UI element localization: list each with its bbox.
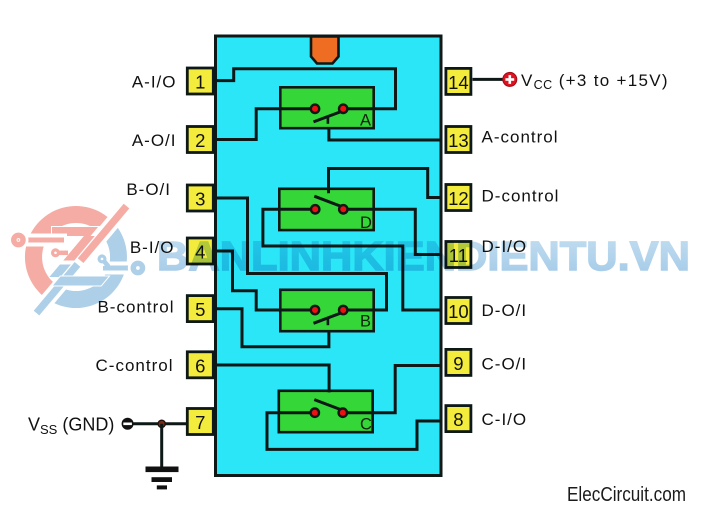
svg-text:D: D	[360, 214, 372, 232]
Vcc plus terminal	[503, 72, 517, 86]
switch A right contact dot	[339, 105, 347, 113]
svg-text:A-I/O: A-I/O	[132, 72, 177, 91]
svg-text:13: 13	[448, 130, 469, 151]
switch D body	[279, 189, 373, 230]
switch B	[311, 306, 371, 331]
wire switch A control to pin13	[329, 129, 441, 140]
logo small node pink stub	[59, 251, 69, 256]
logo slash blue	[34, 262, 81, 315]
pin 12	[446, 185, 471, 211]
pin 5	[187, 296, 213, 322]
switch C right contact dot	[339, 409, 347, 417]
svg-text:C-I/O: C-I/O	[482, 410, 528, 429]
switch C	[311, 400, 372, 434]
svg-text:B: B	[360, 313, 371, 331]
IC body U1 (CD4066 quad bilateral switch)	[216, 36, 442, 476]
svg-text:3: 3	[195, 189, 205, 210]
svg-text:BANLINHKIENDIENTU.VN: BANLINHKIENDIENTU.VN	[157, 233, 690, 279]
wire switch C right terminal to pin9	[343, 366, 441, 413]
switch A control stub	[327, 116, 330, 124]
switch D lever	[314, 196, 341, 206]
wire switch D left terminal to pin10	[263, 209, 441, 310]
logo small node blue	[99, 256, 105, 262]
logo small node pink halo	[53, 250, 59, 256]
watermark group	[8, 204, 690, 316]
notch (pin-1 orientation mark)	[311, 37, 339, 64]
switch C left contact dot	[311, 409, 319, 417]
ground symbol	[146, 467, 179, 490]
switch B right contact dot	[339, 306, 347, 314]
svg-text:7: 7	[195, 412, 205, 433]
node junction at pin7/ground	[158, 420, 165, 427]
svg-text:B-control: B-control	[97, 298, 174, 317]
svg-text:A-O/I: A-O/I	[132, 131, 177, 150]
svg-text:D-control: D-control	[482, 186, 560, 205]
switch B body	[280, 290, 373, 331]
svg-text:8: 8	[453, 409, 463, 430]
switch B left contact dot	[311, 306, 319, 314]
logo slash pink	[78, 204, 130, 263]
svg-text:C-O/I: C-O/I	[482, 355, 528, 374]
wire pin1 to switch A right terminal	[215, 69, 396, 109]
wire pin12 to switch D control	[329, 169, 442, 198]
wire pin2 to switch A left terminal	[215, 109, 316, 140]
svg-text:9: 9	[453, 353, 463, 374]
switch A left contact dot	[311, 105, 319, 113]
svg-text:VCC (+3 to +15V): VCC (+3 to +15V)	[521, 71, 669, 92]
pin 1	[187, 68, 213, 94]
logo small node blue stub	[104, 261, 109, 267]
pin 4	[187, 238, 213, 264]
logo Z bottom bar blue	[53, 277, 109, 286]
svg-text:VSS (GND): VSS (GND)	[28, 415, 114, 437]
svg-text:A: A	[360, 112, 371, 130]
logo trace right blue	[103, 266, 134, 271]
wire pin5 to switch B control	[215, 309, 329, 347]
pin 9	[446, 349, 471, 375]
switch D left contact dot	[311, 205, 319, 213]
pin 11	[446, 242, 471, 268]
pin 10	[446, 298, 471, 324]
switch A body	[280, 87, 373, 128]
logo trace left halo	[8, 234, 67, 247]
wire pin6 to switch C control	[215, 365, 330, 392]
logo ring pink half	[25, 206, 127, 308]
pin 8	[446, 406, 471, 432]
pin 14	[446, 68, 471, 94]
logo Z diagonal blue lower	[49, 265, 71, 278]
svg-text:C-control: C-control	[96, 356, 174, 375]
switch B control stub	[327, 318, 330, 326]
svg-text:12: 12	[448, 188, 469, 209]
pin 6	[187, 352, 213, 378]
switch A	[311, 105, 371, 130]
wire switch D right terminal to pin11	[343, 209, 441, 254]
logo node ring right blue	[133, 263, 142, 272]
wire pin4 to switch B left terminal	[215, 251, 316, 310]
wire switch C left terminal to pin8	[267, 413, 441, 450]
svg-text:ElecCircuit.com: ElecCircuit.com	[567, 483, 686, 506]
logo ring blue half	[25, 206, 127, 308]
logo Z top bar pink	[52, 227, 98, 236]
svg-text:2: 2	[195, 130, 205, 151]
switch B lever	[314, 313, 342, 323]
svg-text:14: 14	[448, 72, 469, 93]
wire pin7 to GND terminal	[134, 422, 187, 425]
logo trace right halo	[100, 262, 146, 275]
switch D	[311, 196, 372, 232]
svg-text:5: 5	[195, 299, 205, 320]
pin 13	[446, 127, 471, 153]
svg-text:A-control: A-control	[482, 128, 559, 147]
svg-text:B-O/I: B-O/I	[126, 180, 171, 199]
wire pin3 to switch B right terminal	[215, 198, 387, 310]
logo Z diagonal pink upper	[63, 236, 95, 261]
GND minus terminal	[122, 418, 134, 430]
svg-text:10: 10	[448, 301, 469, 322]
svg-text:1: 1	[195, 72, 205, 93]
wire pin14 to Vcc terminal	[473, 78, 504, 81]
svg-text:6: 6	[195, 355, 205, 376]
switch D right contact dot	[339, 205, 347, 213]
switch C body	[279, 391, 373, 432]
svg-text:C: C	[360, 416, 372, 434]
logo node ring right halo	[133, 263, 142, 272]
wire junction to ground symbol	[160, 424, 163, 468]
svg-text:D-O/I: D-O/I	[482, 301, 528, 320]
logo small node pink	[53, 250, 59, 256]
logo node ring left pink	[14, 235, 23, 244]
pin 2	[187, 127, 213, 153]
watermark logo	[8, 204, 146, 316]
pin 7	[187, 409, 213, 435]
switch A lever	[314, 112, 342, 122]
logo node ring left halo	[14, 235, 23, 244]
pin 3	[187, 185, 213, 211]
switch C lever	[314, 400, 341, 410]
logo small node blue halo	[99, 256, 105, 262]
logo trace left pink	[14, 238, 64, 243]
